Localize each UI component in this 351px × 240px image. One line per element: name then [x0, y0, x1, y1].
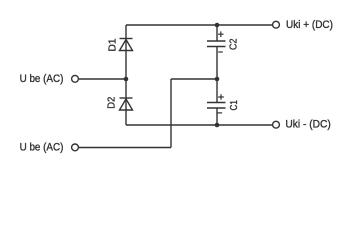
svg-text:D1: D1: [108, 38, 119, 51]
svg-text:Uki - (DC): Uki - (DC): [285, 119, 331, 131]
svg-text:C2: C2: [229, 38, 240, 50]
svg-text:C1: C1: [229, 100, 240, 111]
svg-text:U be (AC): U be (AC): [20, 142, 64, 154]
svg-text:Uki + (DC): Uki + (DC): [286, 19, 333, 31]
svg-text:D2: D2: [107, 96, 118, 108]
svg-text:U be (AC): U be (AC): [20, 73, 64, 85]
